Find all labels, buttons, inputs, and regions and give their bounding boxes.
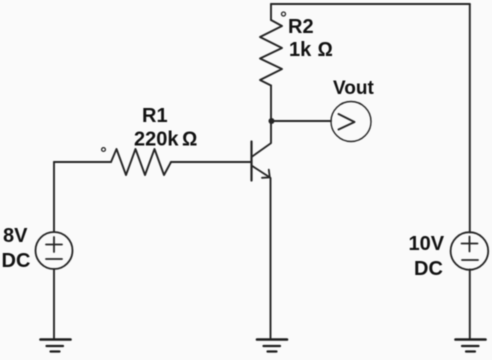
ground right	[456, 340, 486, 352]
svg-text:DC: DC	[414, 258, 443, 280]
wire top rail	[271, 3, 470, 5]
wire base rail left segment	[54, 161, 111, 163]
resistor R2	[260, 20, 282, 86]
svg-text:1k: 1k	[289, 39, 312, 61]
node collector junction	[269, 118, 275, 124]
probe Vout	[331, 102, 371, 142]
svg-text:220k: 220k	[134, 129, 179, 151]
wire V1 to ground	[53, 269, 55, 338]
wire R2 top stub	[270, 4, 272, 20]
transistor Q1 emitter arrow	[262, 170, 270, 178]
wire emitter to ground	[270, 178, 272, 338]
transistor Q1 emitter lead	[252, 166, 271, 178]
wire right rail down to V2	[469, 4, 471, 233]
source V2 10V DC	[451, 232, 489, 270]
svg-text:8V: 8V	[3, 225, 28, 247]
wire collector node to probe	[271, 120, 331, 122]
svg-text:R2: R2	[288, 16, 314, 38]
transistor Q1	[252, 142, 271, 181]
svg-text:Ω: Ω	[318, 39, 333, 61]
transistor Q1 collector lead	[252, 144, 271, 158]
source V1 8V DC	[36, 232, 73, 269]
node marker near R1	[102, 148, 106, 152]
svg-text:DC: DC	[2, 250, 31, 272]
svg-text:Vout: Vout	[333, 78, 374, 99]
node marker near R2 top	[282, 12, 286, 16]
ground middle	[257, 340, 287, 352]
svg-text:Ω: Ω	[182, 129, 197, 151]
transistor Q1 base bar	[250, 142, 252, 181]
wire R1 to base	[171, 161, 251, 163]
svg-text:R1: R1	[142, 105, 168, 127]
wire V2 to ground	[469, 270, 471, 339]
resistor R1	[111, 149, 171, 175]
wire left rail to V1	[53, 162, 55, 232]
svg-text:10V: 10V	[409, 233, 445, 255]
ground left	[41, 340, 71, 352]
wire R2 to collector node	[270, 86, 272, 144]
